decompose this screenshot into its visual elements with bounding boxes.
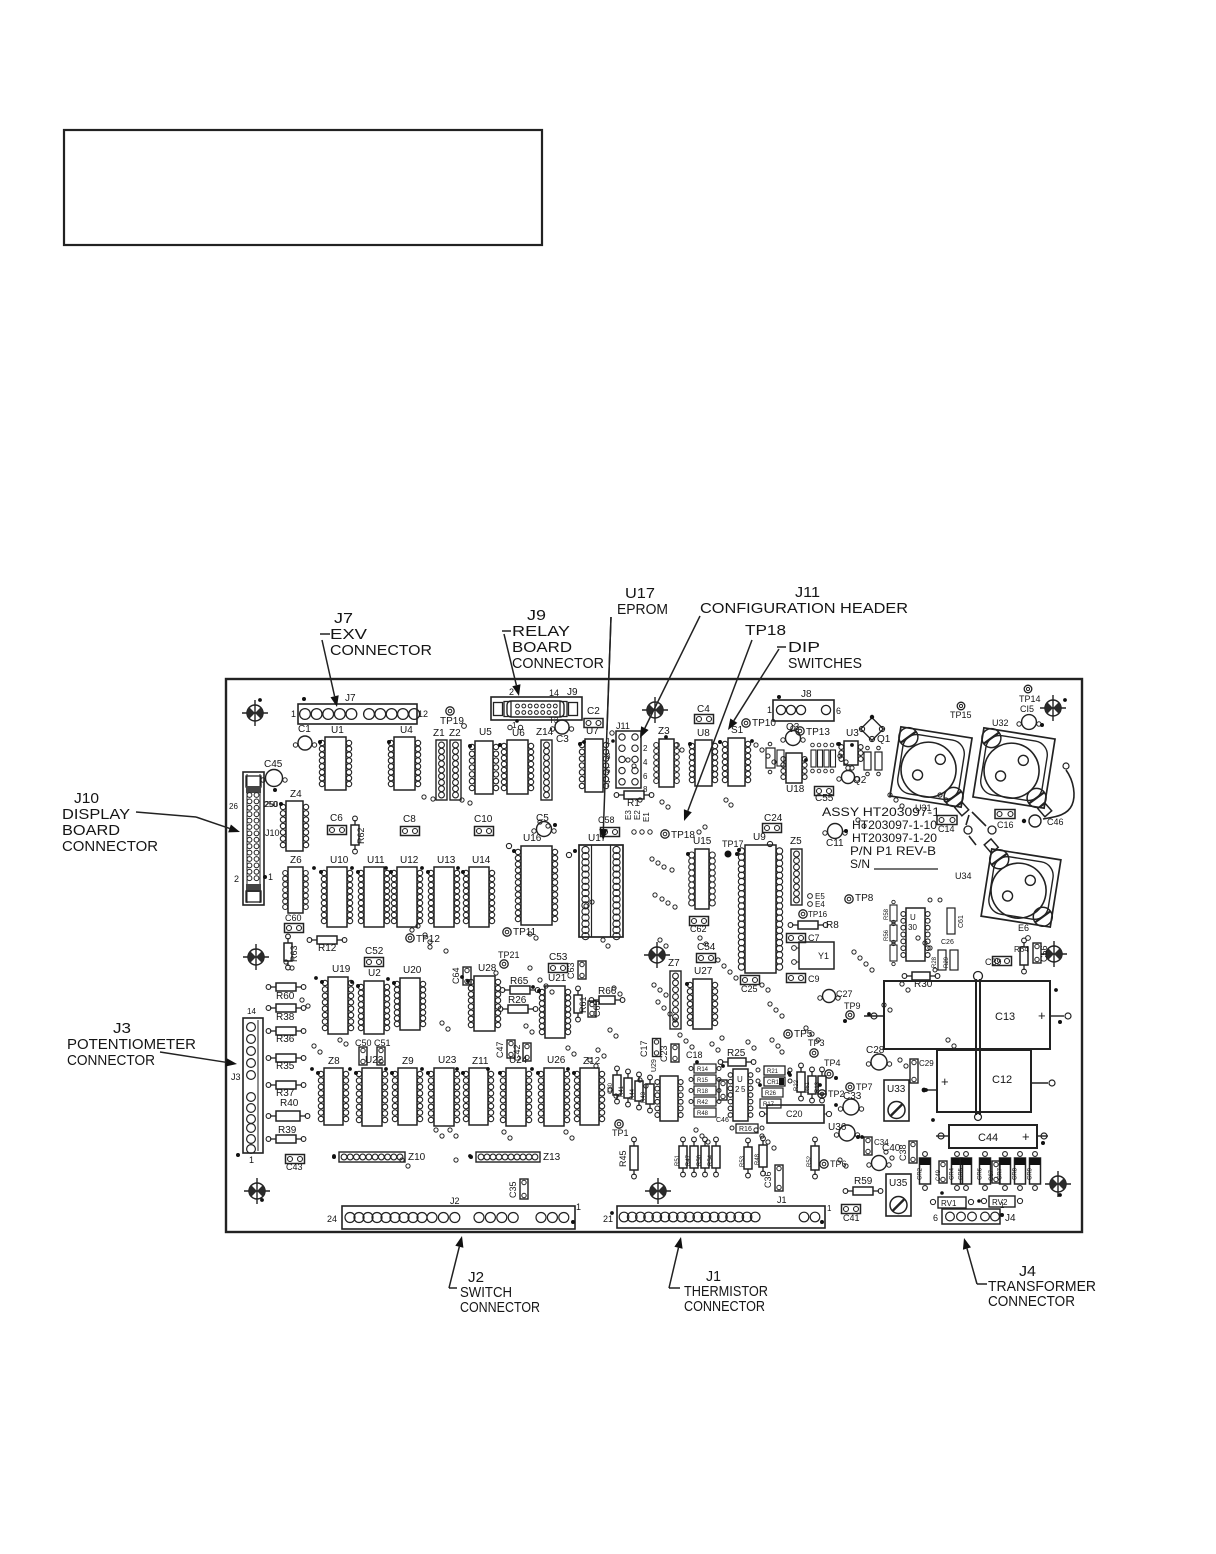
svg-text:U: U xyxy=(737,1075,743,1084)
component cluster small rects xyxy=(811,743,836,773)
capacitor C47 xyxy=(495,1040,515,1058)
svg-text:U34: U34 xyxy=(955,871,972,881)
IC U11 xyxy=(356,855,390,927)
resistor cluster C18 R14 R15 xyxy=(686,1050,729,1124)
connector J2 switch xyxy=(327,1196,581,1229)
svg-text:C41: C41 xyxy=(843,1213,860,1223)
capacitor C6 xyxy=(328,813,347,835)
IC U18 xyxy=(781,753,807,795)
svg-text:POTENTIOMETER: POTENTIOMETER xyxy=(67,1036,196,1053)
svg-text:R36: R36 xyxy=(276,1034,295,1045)
varistor RV1 xyxy=(930,1191,973,1208)
svg-text:R48: R48 xyxy=(697,1111,709,1117)
svg-text:Z10: Z10 xyxy=(408,1152,426,1163)
svg-text:U2: U2 xyxy=(368,968,381,979)
svg-text:C20: C20 xyxy=(786,1109,803,1119)
callout DIP SWITCHES xyxy=(728,639,862,730)
svg-text:TP2: TP2 xyxy=(828,1089,845,1099)
IC U29 xyxy=(651,1059,683,1121)
fiducial target top-center xyxy=(642,697,668,723)
svg-text:U8: U8 xyxy=(697,728,710,739)
svg-text:24: 24 xyxy=(327,1214,337,1224)
IC U13 xyxy=(426,855,460,927)
svg-text:R64: R64 xyxy=(1014,945,1029,954)
svg-text:CONNECTOR: CONNECTOR xyxy=(988,1293,1075,1310)
svg-text:CR4: CR4 xyxy=(950,1167,956,1180)
capacitor C56 xyxy=(1033,943,1049,963)
connector J11 configuration header xyxy=(606,721,648,794)
IC U2 xyxy=(356,968,390,1034)
svg-text:Z1: Z1 xyxy=(433,728,445,739)
svg-text:C2: C2 xyxy=(587,706,600,717)
test point TP7 xyxy=(846,1082,873,1092)
resistor network Z13 xyxy=(469,1152,561,1163)
svg-text:C39: C39 xyxy=(985,957,1002,967)
transistor Q2 xyxy=(837,766,867,786)
svg-text:J4: J4 xyxy=(1005,1213,1016,1224)
capacitor C51 xyxy=(377,1047,385,1065)
svg-text:R42: R42 xyxy=(697,1100,709,1106)
svg-text:R28: R28 xyxy=(932,956,938,968)
IC U17 EPROM xyxy=(566,833,623,940)
IC U7 xyxy=(578,726,609,792)
IC U9 xyxy=(737,832,783,973)
svg-text:C33: C33 xyxy=(843,1091,862,1102)
svg-text:R12: R12 xyxy=(318,943,337,954)
svg-text:C1: C1 xyxy=(298,724,311,735)
svg-text:DIP: DIP xyxy=(788,639,820,656)
svg-text:J7: J7 xyxy=(334,610,353,627)
capacitor C54 xyxy=(697,942,716,963)
svg-text:U6: U6 xyxy=(512,728,525,739)
svg-text:C61: C61 xyxy=(958,915,965,928)
connector J3 potentiometer xyxy=(231,1007,263,1165)
svg-text:TP16: TP16 xyxy=(808,910,828,919)
fiducial target bottom-center xyxy=(645,1178,671,1204)
capacitor C12 xyxy=(922,1050,1055,1112)
svg-text:Q2: Q2 xyxy=(853,775,867,786)
IC U28 xyxy=(466,963,501,1031)
svg-text:R48: R48 xyxy=(755,1153,761,1165)
svg-text:CONNECTOR: CONNECTOR xyxy=(62,838,158,855)
svg-text:HT203097-1-20: HT203097-1-20 xyxy=(852,831,937,845)
svg-text:C4: C4 xyxy=(697,704,710,715)
connector J1 thermistor xyxy=(603,1195,832,1228)
svg-text:J11: J11 xyxy=(795,584,820,601)
transistor U32 TO-3 can xyxy=(971,718,1063,818)
IC U4 xyxy=(387,725,421,790)
svg-text:C29: C29 xyxy=(919,1059,934,1068)
svg-text:U32: U32 xyxy=(992,718,1009,728)
small parts left of U18 xyxy=(766,742,784,774)
svg-text:CR6: CR6 xyxy=(978,1167,984,1180)
IC U24 xyxy=(498,1055,532,1126)
capacitor C62 xyxy=(690,917,709,935)
svg-text:C18: C18 xyxy=(686,1050,703,1060)
IC U15 xyxy=(686,836,715,909)
svg-text:C63: C63 xyxy=(566,962,576,979)
wire U32 to C46 xyxy=(1043,763,1074,819)
resistor R12 xyxy=(307,936,347,954)
svg-text:R29: R29 xyxy=(944,956,950,968)
capacitor C24 xyxy=(763,813,783,833)
pin-1 marker dots scattered xyxy=(258,698,1067,1215)
svg-text:250: 250 xyxy=(264,800,278,809)
IC U10 xyxy=(319,855,353,927)
svg-text:J10: J10 xyxy=(74,790,99,807)
IC U19 xyxy=(320,964,354,1034)
svg-text:SWITCHES: SWITCHES xyxy=(788,655,862,672)
test point TP17 xyxy=(722,839,744,858)
svg-text:J3: J3 xyxy=(231,1072,241,1082)
transistor U34 TO-3 can xyxy=(955,838,1063,928)
svg-text:J2: J2 xyxy=(450,1196,460,1206)
capacitor C41 xyxy=(842,1205,861,1224)
resistor R61 xyxy=(574,986,588,1022)
small parts R22 R61 R13 column xyxy=(794,1063,826,1103)
capacitor C40 xyxy=(867,1143,901,1171)
svg-text:R66: R66 xyxy=(598,986,617,997)
svg-text:R51: R51 xyxy=(675,1154,681,1166)
resistor R39 xyxy=(266,1125,306,1143)
IC U23 xyxy=(426,1055,460,1126)
fiducial target top-right xyxy=(1040,695,1066,721)
connector J10 display board xyxy=(229,772,280,905)
svg-text:Z3: Z3 xyxy=(658,726,670,737)
svg-text:C67: C67 xyxy=(989,1169,995,1181)
resistor network Z2 xyxy=(449,728,461,800)
svg-text:U35: U35 xyxy=(889,1178,908,1189)
label 250 and pin dot xyxy=(264,800,283,809)
svg-text:J10: J10 xyxy=(265,828,280,838)
svg-text:C8: C8 xyxy=(403,814,416,825)
test point TP15 xyxy=(950,702,972,720)
transistor U31 TO-3 can xyxy=(888,726,980,816)
capacitor C44 xyxy=(936,1125,1048,1148)
capacitor C45 xyxy=(261,759,287,792)
IC U3 xyxy=(837,728,863,765)
resistor R25 xyxy=(718,1048,756,1066)
svg-text:12: 12 xyxy=(418,709,428,719)
svg-text:U20: U20 xyxy=(403,965,422,976)
svg-text:C23: C23 xyxy=(659,1045,669,1062)
svg-text:R13: R13 xyxy=(815,1081,821,1093)
capacitor C42 xyxy=(512,1043,531,1061)
fiducial target mid-left xyxy=(243,944,269,970)
screw terminal U35 xyxy=(886,1174,911,1216)
test point TP9 xyxy=(843,1001,861,1023)
resistor R48 xyxy=(755,1136,767,1176)
svg-text:C26: C26 xyxy=(941,939,954,946)
small resistors R near Q2 xyxy=(864,746,882,776)
svg-text:TP10: TP10 xyxy=(752,718,776,729)
resistor R38 xyxy=(266,1004,306,1023)
svg-text:CONNECTOR: CONNECTOR xyxy=(67,1052,155,1069)
capacitor C52 xyxy=(365,946,384,967)
svg-text:DISPLAY: DISPLAY xyxy=(62,806,130,823)
svg-text:1: 1 xyxy=(827,1204,832,1213)
IC U26 xyxy=(536,1055,570,1126)
svg-text:30: 30 xyxy=(908,923,917,932)
svg-text:26: 26 xyxy=(229,802,238,811)
svg-text:R14: R14 xyxy=(697,1067,709,1073)
IC U8 xyxy=(688,728,718,786)
svg-text:TP15: TP15 xyxy=(950,710,972,720)
svg-text:R35: R35 xyxy=(276,1061,295,1072)
small parts R21 CR1 R26 R17 stack xyxy=(756,1066,792,1108)
svg-text:R52: R52 xyxy=(807,1155,813,1167)
svg-text:R16: R16 xyxy=(739,1126,752,1133)
svg-text:TP8: TP8 xyxy=(855,893,874,904)
resistor R16 xyxy=(730,1124,764,1133)
svg-text:1: 1 xyxy=(767,705,772,715)
svg-text:C6: C6 xyxy=(330,813,343,824)
svg-text:U22: U22 xyxy=(365,1055,384,1066)
label C50 C51 xyxy=(355,1038,391,1048)
test point TP18 marker xyxy=(661,830,696,841)
capacitor C38 xyxy=(898,1141,917,1163)
svg-text:2: 2 xyxy=(509,687,514,697)
svg-text:R54: R54 xyxy=(708,1154,714,1166)
resistors R51 R47 R50 R54 xyxy=(675,1137,720,1177)
resistor R59 xyxy=(843,1176,883,1195)
transistor U36 xyxy=(828,1122,860,1141)
svg-text:U36: U36 xyxy=(828,1122,847,1133)
callout J10 DISPLAY BOARD CONNECTOR xyxy=(62,790,240,855)
callout J9 RELAY BOARD CONNECTOR xyxy=(502,607,604,696)
svg-text:E4: E4 xyxy=(815,900,825,909)
svg-text:U15: U15 xyxy=(693,836,712,847)
svg-text:C27: C27 xyxy=(836,989,853,999)
svg-text:R60: R60 xyxy=(276,991,295,1002)
jumper E6 xyxy=(1018,923,1030,940)
jumper posts E5 E4 xyxy=(808,892,826,909)
svg-text:U9: U9 xyxy=(753,832,766,843)
svg-text:C64: C64 xyxy=(451,967,461,984)
svg-text:CR5: CR5 xyxy=(959,1167,965,1180)
fiducial target mid-center xyxy=(644,942,670,968)
svg-text:C46: C46 xyxy=(716,1117,729,1124)
resistor network Z4 xyxy=(280,789,308,851)
PCB board outline xyxy=(226,679,1082,1232)
figure caption box (empty) xyxy=(64,130,542,245)
svg-text:J3: J3 xyxy=(113,1020,131,1037)
svg-text:U12: U12 xyxy=(400,855,419,866)
svg-text:Z11: Z11 xyxy=(472,1056,489,1067)
svg-text:S1: S1 xyxy=(731,725,744,736)
svg-text:TP18: TP18 xyxy=(745,622,786,639)
test point TP8 xyxy=(845,893,874,904)
resistor R35 xyxy=(266,1054,306,1072)
svg-text:R44: R44 xyxy=(630,1088,636,1100)
wire U34 tab to pad xyxy=(969,836,976,845)
svg-text:C35: C35 xyxy=(508,1181,518,1198)
svg-text:P/N P1 REV-B: P/N P1 REV-B xyxy=(850,844,936,858)
svg-text:U1: U1 xyxy=(331,725,344,736)
svg-text:2: 2 xyxy=(735,1085,740,1094)
svg-text:1: 1 xyxy=(268,872,273,882)
callout J2 SWITCH CONNECTOR xyxy=(449,1236,540,1316)
test point TP4 xyxy=(824,1058,841,1080)
svg-text:U11: U11 xyxy=(367,855,385,866)
svg-text:U4: U4 xyxy=(400,725,413,736)
capacitor C9 xyxy=(787,974,820,985)
svg-text:1: 1 xyxy=(576,1202,581,1212)
svg-text:U27: U27 xyxy=(694,966,713,977)
capacitor C60 xyxy=(285,913,304,933)
callout TP18 xyxy=(684,622,786,821)
svg-text:5: 5 xyxy=(741,1085,746,1094)
svg-text:C54: C54 xyxy=(697,942,716,953)
svg-text:U29: U29 xyxy=(651,1059,658,1072)
svg-text:TP18: TP18 xyxy=(671,830,695,841)
capacitor C27 xyxy=(818,989,853,1003)
fiducial target top-left xyxy=(242,700,268,726)
svg-text:R38: R38 xyxy=(276,1012,295,1023)
heatsink strap xyxy=(974,972,983,1121)
svg-text:4: 4 xyxy=(643,758,648,767)
crystal Y1 xyxy=(792,942,834,969)
capacitor C7 xyxy=(787,933,820,943)
svg-text:ASSY HT203097-1: ASSY HT203097-1 xyxy=(822,805,940,819)
fiducial target bottom-right xyxy=(1045,1171,1071,1197)
fiducial target mid-right xyxy=(1041,941,1067,967)
transistor Q1 xyxy=(859,715,890,745)
svg-text:R8: R8 xyxy=(826,920,839,931)
transistor Q3 xyxy=(781,722,805,746)
IC Z3 xyxy=(654,726,680,787)
svg-text:C16: C16 xyxy=(997,820,1014,830)
svg-text:C65: C65 xyxy=(592,1000,602,1017)
test point TP19 xyxy=(440,707,466,729)
svg-text:C55: C55 xyxy=(815,793,834,804)
svg-text:J1: J1 xyxy=(777,1195,787,1205)
callout J11 CONFIGURATION HEADER xyxy=(640,584,908,738)
svg-text:C43: C43 xyxy=(286,1162,303,1172)
resistor R60 xyxy=(266,983,306,1002)
resistor network Z7 xyxy=(668,958,681,1029)
capacitor C4 xyxy=(695,704,714,724)
svg-text:U10: U10 xyxy=(330,855,349,866)
svg-text:Z4: Z4 xyxy=(290,789,302,800)
capacitor C13 xyxy=(864,981,1071,1049)
svg-text:C3: C3 xyxy=(556,734,569,745)
svg-text:C58: C58 xyxy=(598,815,615,825)
svg-text:E6: E6 xyxy=(1018,923,1029,933)
svg-text:R62: R62 xyxy=(356,827,366,844)
svg-text:U18: U18 xyxy=(786,784,805,795)
capacitor C20 xyxy=(759,1105,831,1123)
svg-text:C45: C45 xyxy=(264,759,283,770)
svg-text:R41: R41 xyxy=(619,1085,625,1097)
svg-text:14: 14 xyxy=(549,688,559,698)
svg-text:CR8: CR8 xyxy=(1013,1167,1019,1180)
small vertical parts C30 R41 R44 R43 xyxy=(608,1066,654,1113)
capacitor C25 xyxy=(741,976,760,995)
connector J4 transformer xyxy=(933,1201,1016,1224)
svg-text:C9: C9 xyxy=(808,974,820,984)
svg-text:U19: U19 xyxy=(332,964,351,975)
svg-text:14: 14 xyxy=(247,1007,256,1016)
svg-text:U23: U23 xyxy=(438,1055,457,1066)
svg-text:C47: C47 xyxy=(495,1041,505,1058)
test point TP11 xyxy=(503,927,537,938)
capacitor C8 xyxy=(401,814,420,836)
fiducial target bottom-left xyxy=(244,1178,270,1204)
svg-text:EXV: EXV xyxy=(330,626,367,643)
svg-text:+: + xyxy=(1022,1129,1030,1144)
capacitor C16 xyxy=(995,810,1015,831)
connector J7 xyxy=(291,693,428,724)
svg-text:1: 1 xyxy=(291,709,296,719)
svg-text:J9: J9 xyxy=(527,607,546,624)
capacitor C63 xyxy=(566,961,586,979)
capacitor C43 xyxy=(286,1155,305,1173)
svg-text:Z9: Z9 xyxy=(402,1056,414,1067)
IC Z9 xyxy=(390,1056,423,1125)
capacitor C17 xyxy=(639,1039,661,1058)
svg-text:C53: C53 xyxy=(549,952,568,963)
svg-text:Z13: Z13 xyxy=(543,1152,561,1163)
capacitor C34 xyxy=(864,1137,889,1155)
test point TP13 xyxy=(796,727,831,738)
svg-text:TP11: TP11 xyxy=(513,927,537,938)
diodes CR2-CR9 row xyxy=(918,1152,1041,1191)
svg-text:R43: R43 xyxy=(641,1091,647,1103)
test point TP3 xyxy=(808,1038,825,1057)
svg-text:6: 6 xyxy=(643,772,648,781)
svg-text:21: 21 xyxy=(603,1214,613,1224)
IC U16 xyxy=(506,833,557,925)
IC U22 xyxy=(354,1055,388,1126)
test point TP12 xyxy=(406,934,441,945)
svg-text:J9: J9 xyxy=(567,687,578,698)
callout J1 THERMISTOR CONNECTOR xyxy=(669,1237,768,1315)
svg-text:1: 1 xyxy=(249,1155,254,1165)
svg-text:C28: C28 xyxy=(866,1045,885,1056)
resistor R64 xyxy=(1014,938,1029,974)
test point TP10 xyxy=(742,718,777,729)
capacitor C29 xyxy=(910,1059,934,1083)
svg-text:U24: U24 xyxy=(509,1055,528,1066)
svg-text:C46: C46 xyxy=(1047,817,1064,827)
IC U27 xyxy=(685,966,718,1029)
svg-text:CONNECTOR: CONNECTOR xyxy=(460,1299,540,1316)
svg-text:C17: C17 xyxy=(639,1040,649,1057)
svg-text:C24: C24 xyxy=(764,813,783,824)
capacitor C14 xyxy=(937,816,957,835)
resistor R65 xyxy=(500,976,540,994)
resistor R26 xyxy=(498,995,538,1013)
DIP switch S1 xyxy=(718,725,751,786)
svg-text:R61: R61 xyxy=(805,1081,811,1093)
svg-text:R18: R18 xyxy=(697,1089,709,1095)
svg-text:CR1: CR1 xyxy=(767,1080,780,1086)
IC U5 xyxy=(468,727,499,794)
IC U25 xyxy=(728,1069,753,1121)
resistor network Z14 xyxy=(536,727,554,800)
svg-text:C14: C14 xyxy=(938,824,955,834)
svg-text:TP13: TP13 xyxy=(806,727,830,738)
svg-text:CR2: CR2 xyxy=(918,1167,924,1180)
svg-text:C52: C52 xyxy=(365,946,384,957)
svg-text:Z6: Z6 xyxy=(290,855,302,866)
svg-text:J11: J11 xyxy=(616,721,630,731)
svg-text:Z2: Z2 xyxy=(449,728,461,739)
resistor R8 xyxy=(788,920,839,931)
svg-text:C49: C49 xyxy=(936,1169,942,1181)
svg-text:C12: C12 xyxy=(992,1074,1012,1086)
